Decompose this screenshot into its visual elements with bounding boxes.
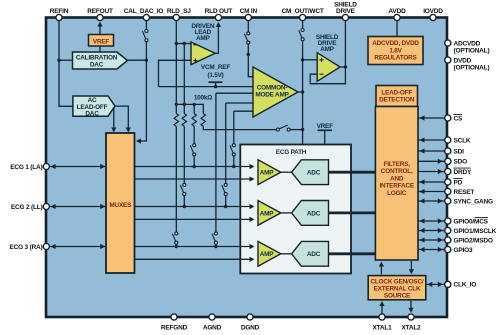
- wire PD: [418, 181, 445, 183]
- wire XTAL1 to clock: [381, 304, 383, 314]
- pin SHIELD DRIVE: [342, 14, 348, 20]
- regulators block: [368, 37, 423, 65]
- pin DRDY: [445, 168, 451, 174]
- svg-text:COMMON-: COMMON-: [257, 85, 288, 92]
- filters control interface block: [375, 107, 418, 261]
- wire common-mode amp output: [298, 91, 303, 93]
- resistor R3 100k: [192, 114, 196, 127]
- svg-text:RLD_SJ: RLD_SJ: [167, 8, 191, 15]
- wire CM IN pin to switch: [247, 18, 249, 32]
- svg-text:AMP: AMP: [320, 46, 335, 53]
- wire resistor R4 to CM switch: [203, 126, 276, 129]
- wire ECG2 switch2 to row line: [225, 196, 227, 207]
- arrow GPIO0 bidir: [420, 218, 425, 223]
- wire SDI: [418, 150, 445, 152]
- wire ECG3 pin to MUXES: [50, 246, 106, 248]
- svg-text:CM_OUT/WCT: CM_OUT/WCT: [282, 8, 324, 15]
- wire ECG2 switch to row line: [183, 196, 185, 207]
- ADC1: [292, 160, 329, 185]
- arrow ECG3 bidir: [51, 244, 56, 249]
- pin REFIN: [56, 14, 62, 20]
- pin AVDD: [394, 14, 400, 20]
- arrow down to XTAL2: [408, 308, 413, 313]
- wire VREF box to CALIBRATION DAC: [99, 46, 101, 52]
- pin CS: [445, 115, 451, 121]
- arrow ECG1 bidir: [51, 164, 56, 169]
- VREF box: [89, 35, 114, 47]
- wire common-mode amp input 2: [216, 92, 253, 94]
- wire shield drive amp feedback: [310, 67, 345, 84]
- wire clock to filters: [380, 264, 382, 275]
- pin CLK_IO: [445, 281, 451, 287]
- calibration DAC: [73, 52, 128, 69]
- op-amp common-mode amp: [253, 67, 298, 117]
- node CM amp output: [301, 90, 304, 93]
- wire CALIBRATION DAC tip to CAL_DAC_IO node: [128, 59, 147, 61]
- switch S9 row3 right: [212, 232, 217, 244]
- wire AMP1 to ADC1: [281, 171, 292, 173]
- arrow XTAL1 up into CLOCK: [379, 301, 384, 306]
- node bus R2: [183, 103, 186, 106]
- svg-text:ADCVDD, DVDD: ADCVDD, DVDD: [372, 40, 419, 47]
- wire CAL_DAC_IO pin to switch: [145, 18, 147, 29]
- pin XTAL2: [408, 314, 414, 320]
- svg-text:CONTROL,: CONTROL,: [381, 168, 413, 175]
- arrows into AMP2: [250, 204, 255, 209]
- wire shield drive amp plus input: [303, 59, 318, 61]
- svg-text:CAL_DAC_IO: CAL_DAC_IO: [124, 8, 164, 15]
- arrow PD in: [420, 179, 425, 184]
- svg-text:100kΩ: 100kΩ: [194, 95, 212, 102]
- node shield output: [344, 65, 347, 68]
- pin GPIO3: [445, 246, 451, 252]
- wire SCLK: [418, 139, 445, 141]
- svg-text:ECG 3 (RA): ECG 3 (RA): [9, 244, 42, 251]
- pin ECG3: [43, 243, 49, 249]
- pin RLD_SJ: [173, 14, 179, 20]
- pin SDI: [445, 148, 451, 154]
- svg-text:AGND: AGND: [203, 325, 222, 332]
- wire VCM_REF symbol tick: [215, 82, 217, 86]
- AC lead-off DAC: [73, 96, 115, 118]
- pin RESET: [445, 188, 451, 194]
- svg-text:DETECTION: DETECTION: [379, 96, 415, 103]
- node bus tap at amp minus: [183, 42, 186, 45]
- svg-text:DRIVE: DRIVE: [336, 8, 356, 15]
- wire R4 bottom vertical: [193, 104, 195, 113]
- MUXES block: [106, 133, 135, 273]
- svg-text:CLOCK GEN/OSC/: CLOCK GEN/OSC/: [371, 279, 424, 286]
- svg-text:DGND: DGND: [241, 325, 260, 332]
- svg-text:DAC: DAC: [85, 111, 99, 118]
- wire shield drive amp output: [340, 18, 345, 67]
- wire driven lead amp minus input: [176, 43, 191, 45]
- wire AMP3 to ADC3: [281, 253, 292, 255]
- arrows into AMP1: [250, 164, 255, 169]
- wire CLK_IO: [426, 283, 445, 285]
- arrows into AMP3: [250, 244, 255, 249]
- svg-text:XTAL2: XTAL2: [401, 325, 421, 332]
- wire AC LEAD-OFF DAC tip to MUXES arrow: [115, 106, 128, 130]
- wire ADC2 output: [329, 211, 376, 214]
- svg-text:ECG PATH: ECG PATH: [276, 149, 307, 156]
- pin CM_OUT/WCT: [300, 14, 306, 20]
- switch S8 row3 left: [172, 232, 177, 244]
- pin ECG2: [43, 203, 49, 209]
- svg-text:IOVDD: IOVDD: [423, 8, 443, 15]
- switch S5 row1 right: [230, 144, 235, 156]
- svg-text:MUXES: MUXES: [109, 202, 132, 209]
- svg-text:CS: CS: [454, 115, 463, 122]
- switch S7 row2 right: [222, 183, 227, 195]
- wire driven lead amp output to RLD OUT: [215, 25, 218, 54]
- pin XTAL1: [379, 314, 385, 320]
- node row3 sw2: [214, 245, 217, 248]
- svg-text:AND: AND: [390, 175, 404, 182]
- wire row1 upper line: [135, 166, 253, 168]
- wire VREF tick to ECG path: [324, 130, 326, 144]
- svg-text:RLD OUT: RLD OUT: [205, 8, 233, 15]
- svg-text:LEAD-OFF: LEAD-OFF: [381, 89, 412, 96]
- node bus left: [175, 103, 178, 106]
- arrow SDO out: [438, 159, 443, 164]
- wire row2 lower line: [135, 218, 253, 220]
- svg-text:CALIBRATION: CALIBRATION: [76, 54, 118, 61]
- node row1 sw2: [232, 165, 235, 168]
- svg-text:VREF: VREF: [317, 123, 334, 130]
- svg-text:SDO: SDO: [454, 159, 468, 166]
- wire node vertical to 100k bus: [183, 44, 185, 114]
- wire row2 upper line: [135, 206, 253, 208]
- switch S2 CM IN: [244, 32, 249, 44]
- node RLD_SJ at amp minus: [175, 42, 178, 45]
- svg-text:AMP: AMP: [260, 251, 275, 258]
- wire clock to XTAL2: [410, 301, 412, 310]
- arrow SCLK in: [420, 137, 425, 142]
- arrow down into CLOCK: [409, 269, 414, 274]
- wire CM IN switch to common-mode amp: [248, 44, 253, 76]
- pin GPIO0: [445, 218, 451, 224]
- op-amp AMP1: [258, 160, 281, 185]
- wire CAL_DAC_IO switch down to MUXES: [138, 42, 147, 141]
- wire CM switch to CM node: [290, 129, 302, 131]
- arrow up to REFOUT: [97, 22, 102, 27]
- op-amp shield drive amp: [316, 34, 340, 81]
- svg-text:XTAL1: XTAL1: [372, 325, 392, 332]
- svg-text:CLK_IO: CLK_IO: [454, 282, 477, 289]
- switch S3 CM_OUT/WCT: [299, 29, 304, 41]
- arrow up into FILTERS: [379, 262, 384, 267]
- arrow up to RLD OUT: [216, 22, 221, 27]
- wire common-mode amp input 3: [226, 102, 253, 104]
- svg-text:GPIO2/MSDO: GPIO2/MSDO: [454, 237, 493, 244]
- wire resistor R2 down to ECG2 switch: [183, 126, 185, 183]
- wire 100k bus: [176, 104, 203, 113]
- svg-text:1.8V: 1.8V: [389, 47, 402, 54]
- wire ECG3 switch to row line: [175, 244, 177, 246]
- wire SDO: [418, 160, 445, 162]
- pin CAL_DAC_IO: [143, 14, 149, 20]
- VCM_REF symbol: [201, 64, 230, 82]
- op-amp driven lead amp: [191, 23, 215, 65]
- wire RLD_SJ vertical: [175, 18, 177, 114]
- svg-text:FILTERS,: FILTERS,: [384, 161, 411, 168]
- svg-text:REFGND: REFGND: [161, 325, 188, 332]
- pin ECG1: [43, 163, 49, 169]
- wire ADC3 output: [329, 252, 376, 255]
- arrow SDI in: [420, 148, 425, 153]
- resistor R2 100k: [182, 114, 186, 127]
- svg-text:SYNC_GANG: SYNC_GANG: [454, 198, 494, 205]
- resistor R1 100k: [174, 114, 178, 127]
- svg-text:CM IN: CM IN: [240, 8, 258, 15]
- svg-text:AVDD: AVDD: [388, 8, 406, 15]
- wire AC LEAD-OFF DAC bottom to MUXES arrow: [113, 109, 115, 131]
- pin RLD OUT: [215, 14, 221, 20]
- svg-text:ADC: ADC: [307, 251, 321, 258]
- wire SYNC_GANG: [418, 200, 445, 202]
- svg-text:GPIO1/MSCLK: GPIO1/MSCLK: [454, 228, 497, 235]
- wire common-mode amp input 3 vertical to ECG2 switch: [225, 103, 227, 183]
- wire filters to clock: [410, 261, 412, 272]
- wire REFIN vertical: [59, 18, 73, 106]
- node bus R3: [193, 103, 196, 106]
- wire GPIO2: [418, 239, 445, 241]
- svg-text:AMP: AMP: [260, 210, 275, 217]
- svg-text:DRDY: DRDY: [454, 169, 472, 176]
- svg-text:SCLK: SCLK: [454, 137, 471, 144]
- svg-text:INTERFACE: INTERFACE: [379, 183, 414, 190]
- pin REFOUT: [97, 14, 103, 20]
- svg-text:ADC: ADC: [307, 210, 321, 217]
- wire common-mode amp input 4 vertical to ECG1 switch: [233, 111, 235, 143]
- switch S6 row2 left: [180, 183, 185, 195]
- arrow CLK_IO bidir: [427, 282, 432, 287]
- svg-text:AMP: AMP: [260, 170, 275, 177]
- pin CM IN: [245, 14, 251, 20]
- wire resistor R1 down to ECG3 switch: [175, 126, 177, 232]
- svg-text:ECG 1 (LA): ECG 1 (LA): [10, 164, 42, 171]
- pin GPIO2: [445, 237, 451, 243]
- wire row3 upper line: [135, 246, 253, 248]
- VREF rail symbol: [317, 123, 334, 130]
- wire GPIO0: [418, 220, 445, 222]
- svg-text:RESET: RESET: [454, 189, 475, 196]
- wire row1 lower line: [135, 178, 253, 180]
- pin DVDD: [445, 57, 451, 63]
- wire VCM_REF line: [159, 86, 254, 88]
- wire GPIO1: [418, 230, 445, 232]
- svg-text:LOGIC: LOGIC: [387, 190, 407, 197]
- wire resistor R3 down to ECG1 switch: [193, 126, 195, 143]
- pin PD: [445, 179, 451, 185]
- svg-text:ADCVDD: ADCVDD: [454, 40, 481, 47]
- svg-text:ECG 2 (LL): ECG 2 (LL): [11, 204, 43, 211]
- svg-text:SOURCE: SOURCE: [384, 293, 411, 300]
- wire VCM_REF to driven lead amp plus: [159, 60, 192, 86]
- arrow ECG2 bidir: [51, 204, 56, 209]
- arrow GPIO2 bidir: [420, 237, 425, 242]
- wire common-mode amp input 2 vertical to ECG3 switch: [215, 93, 217, 232]
- svg-text:DAC: DAC: [90, 61, 104, 68]
- arrow CS in: [420, 115, 425, 120]
- switch S4 row1 left: [190, 144, 195, 156]
- svg-text:MODE AMP: MODE AMP: [255, 92, 289, 99]
- svg-text:(OPTIONAL): (OPTIONAL): [454, 47, 490, 54]
- svg-text:REFOUT: REFOUT: [87, 8, 113, 15]
- wire ECG1 switch2 to row line: [233, 156, 235, 166]
- node row1 sw1: [193, 165, 196, 168]
- pin ADCVDD: [445, 40, 451, 46]
- arrow GPIO3 bidir: [420, 247, 425, 252]
- wire ECG2 pin to MUXES: [50, 206, 106, 208]
- wire CM_OUT/WCT pin to switch: [302, 18, 304, 28]
- svg-text:DVDD: DVDD: [454, 57, 472, 64]
- pin SDO: [445, 158, 451, 164]
- wire AMP2 to ADC2: [281, 212, 292, 214]
- svg-text:GPIO0/MCS: GPIO0/MCS: [454, 218, 489, 225]
- svg-text:REFIN: REFIN: [50, 8, 69, 15]
- wire RESET: [418, 191, 445, 193]
- svg-text:SDI: SDI: [454, 148, 465, 155]
- wire CS: [418, 117, 445, 119]
- op-amp AMP3: [258, 241, 281, 266]
- wire row3 lower line: [135, 258, 253, 260]
- clock gen block: [368, 276, 426, 300]
- arrow down into MUXES b: [126, 128, 131, 133]
- arrow GPIO1 bidir: [420, 228, 425, 233]
- wire REFIN to CALIBRATION DAC: [59, 59, 73, 61]
- svg-text:AC: AC: [88, 97, 97, 104]
- svg-text:VREF: VREF: [93, 38, 110, 45]
- wire VREF to REFOUT: [99, 24, 101, 35]
- svg-text:EXTERNAL CLK: EXTERNAL CLK: [374, 286, 421, 293]
- node row2 sw2: [224, 205, 227, 208]
- switch S1 CAL_DAC_IO: [143, 30, 148, 42]
- pin DGND: [247, 314, 253, 320]
- wire CM node vertical: [302, 41, 304, 145]
- node VCM_REF: [214, 85, 217, 88]
- svg-text:(OPTIONAL): (OPTIONAL): [454, 64, 490, 71]
- svg-text:GPIO3: GPIO3: [454, 247, 473, 254]
- ECG PATH block: [240, 145, 351, 274]
- node shield plus tap: [301, 58, 304, 61]
- wire GPIO3: [418, 249, 445, 251]
- op-amp AMP2: [258, 201, 281, 226]
- ADC2: [292, 201, 329, 226]
- arrow DRDY out: [438, 169, 443, 174]
- wire ECG3 switch2 to row line: [215, 244, 217, 246]
- arrow RESET in: [420, 189, 425, 194]
- wire DRDY: [418, 171, 445, 173]
- wire ECG1 pin to MUXES: [50, 166, 106, 168]
- wire common-mode amp input 4: [234, 110, 253, 112]
- wire AVDD to regulators: [396, 18, 398, 37]
- ADC3: [292, 241, 329, 266]
- node REFIN/CAL DAC: [57, 59, 60, 62]
- node CAL_DAC_IO: [145, 59, 148, 62]
- pin AGND: [209, 314, 215, 320]
- resistor R4 100k: [201, 114, 205, 127]
- pin REFGND: [171, 314, 177, 320]
- node CM IN branch: [247, 53, 250, 56]
- pin SYNC_GANG: [445, 198, 451, 204]
- svg-text:ADC: ADC: [307, 170, 321, 177]
- pin GPIO1: [445, 227, 451, 233]
- pin IOVDD: [430, 14, 436, 20]
- svg-text:REGULATORS: REGULATORS: [374, 55, 417, 62]
- pin SCLK: [445, 137, 451, 143]
- chip body: [46, 18, 447, 318]
- svg-text:AMP: AMP: [196, 35, 211, 42]
- node row2 sw1: [183, 205, 186, 208]
- node row3 sw1: [175, 245, 178, 248]
- svg-text:(1.5V): (1.5V): [207, 72, 223, 79]
- wire ECG1 switch to row line: [193, 156, 195, 166]
- node CM switch: [301, 128, 304, 131]
- svg-text:VCM_REF: VCM_REF: [201, 64, 230, 71]
- arrow SYNC_GANG bidir: [420, 198, 425, 203]
- svg-text:PD: PD: [454, 179, 463, 186]
- arrow down into MUXES a: [111, 128, 116, 133]
- arrow left into MUXES right: [136, 138, 141, 143]
- switch S10 CM to 100k bus: [276, 125, 290, 131]
- wire ADC1 output: [329, 171, 376, 174]
- lead-off detection block: [376, 86, 418, 107]
